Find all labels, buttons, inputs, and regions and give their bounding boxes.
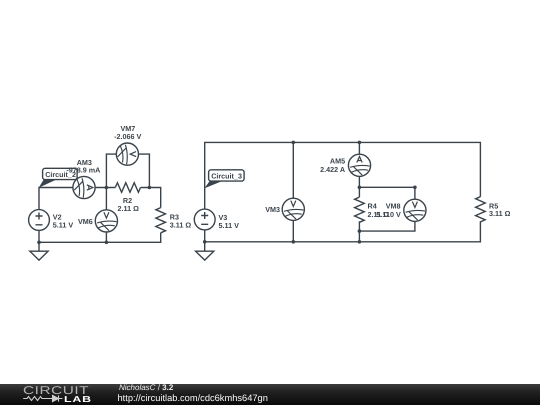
voltage source V2 — [29, 210, 50, 231]
voltmeter VM6 — [95, 210, 117, 232]
resistor R5 — [476, 197, 486, 222]
svg-text:3.11 Ω: 3.11 Ω — [489, 209, 511, 218]
ground (circuit 2) — [30, 242, 48, 260]
node B (left node of R2) — [105, 186, 109, 190]
wire R3 bottom to bottom rail — [39, 233, 161, 243]
node top rail AM5 — [358, 141, 362, 145]
svg-text:2.11 Ω: 2.11 Ω — [118, 204, 140, 213]
wire R2 right to node C — [141, 188, 161, 208]
svg-text:VM6: VM6 — [78, 217, 93, 226]
resistor R4 — [355, 197, 365, 222]
logo resistor squiggle — [23, 397, 51, 401]
wire top rail circuit 3 — [205, 142, 481, 209]
svg-text:5.11 V: 5.11 V — [53, 221, 74, 230]
wire AM3 to node B — [95, 187, 115, 189]
ammeter AM5 — [348, 154, 370, 176]
svg-text:5.110 V: 5.110 V — [376, 210, 401, 219]
svg-text:Circuit_3: Circuit_3 — [211, 171, 242, 180]
logo CIRCUIT text — [23, 385, 89, 397]
node V3 bottom — [203, 240, 207, 244]
footer url — [118, 393, 268, 403]
svg-text:-978.9 mA: -978.9 mA — [66, 165, 100, 174]
wire VM7 left — [106, 154, 116, 187]
node VM8 top corner — [413, 186, 417, 190]
voltmeter VM7 — [116, 143, 138, 165]
node V2 bottom — [37, 241, 41, 245]
wire VM6 bottom — [105, 232, 107, 242]
wire R4 bottom to rail — [358, 221, 360, 242]
wire VM8 bottom loop — [359, 221, 415, 231]
wire VM7 right — [138, 154, 149, 187]
wire VM3 top — [292, 142, 294, 198]
wire VM3 bottom — [292, 220, 294, 241]
svg-text:-2.066 V: -2.066 V — [114, 132, 141, 141]
ground (circuit 3) — [196, 242, 214, 260]
node VM3 bottom rail — [292, 240, 296, 244]
resistor R2 — [115, 183, 140, 193]
node R4 bottom E — [358, 229, 362, 233]
svg-text:2.422 A: 2.422 A — [320, 165, 345, 174]
wire VM8 top loop — [359, 187, 415, 199]
resistor R3 — [156, 208, 166, 233]
callout Circuit_2 — [39, 168, 77, 188]
wire V3 bottom rail — [205, 221, 481, 242]
svg-text:3.11 Ω: 3.11 Ω — [170, 221, 192, 230]
ammeter AM3 — [73, 176, 95, 198]
voltage source V3 — [194, 209, 215, 230]
wire VM6 top — [105, 188, 107, 210]
footer user/title — [119, 383, 173, 392]
wire AM5 top — [358, 142, 360, 154]
svg-text:VM3: VM3 — [265, 205, 280, 214]
voltmeter VM8 — [404, 199, 426, 221]
logo diode — [51, 395, 63, 401]
wire AM5 to R4 — [358, 176, 360, 197]
logo LAB text — [64, 394, 92, 404]
node AM5/R4 junction D — [358, 186, 362, 190]
svg-text:5.11 V: 5.11 V — [219, 221, 240, 230]
voltmeter VM3 — [282, 198, 304, 220]
node top rail VM3 — [292, 141, 296, 145]
node R4 branch bottom rail — [358, 240, 362, 244]
callout Circuit_3 — [205, 170, 245, 189]
node C (right node of R2) — [148, 186, 152, 190]
wire V2 bottom — [38, 231, 40, 243]
node VM6 bottom — [105, 241, 109, 245]
wire V2 top to AM3 — [39, 188, 73, 210]
